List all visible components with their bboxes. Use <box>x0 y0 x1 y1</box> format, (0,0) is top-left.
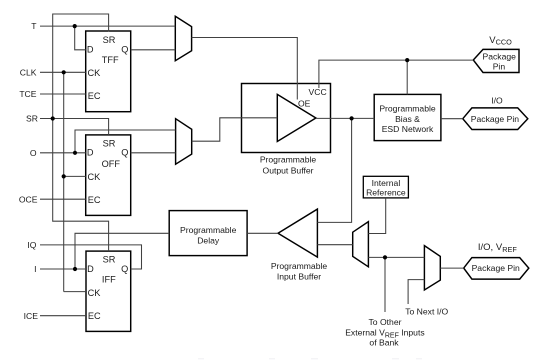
svg-text:TFF: TFF <box>102 55 119 65</box>
svg-text:D: D <box>87 148 94 158</box>
output buffer triangle <box>277 94 316 141</box>
wire T input line <box>40 25 175 27</box>
junction CLK-OFF <box>62 174 66 178</box>
svg-text:D: D <box>87 45 94 55</box>
svg-text:Q: Q <box>121 264 128 274</box>
junction vref <box>383 255 387 259</box>
svg-text:SR: SR <box>103 255 116 265</box>
svg-text:CK: CK <box>88 68 102 78</box>
faint cropped caption remnants <box>198 358 422 360</box>
wire OFF Q to mux <box>131 152 176 154</box>
wire TFF Q to mux <box>131 49 176 51</box>
wire output node down to input buffer <box>317 118 351 222</box>
svg-text:Bias &: Bias & <box>395 114 420 124</box>
svg-text:SR: SR <box>103 139 116 149</box>
junction output <box>350 116 354 120</box>
wire O input line <box>40 152 86 154</box>
svg-text:CK: CK <box>88 172 102 182</box>
wire TFF mux output to OE <box>192 38 298 100</box>
svg-text:OE: OE <box>298 98 311 108</box>
junction I <box>73 267 77 271</box>
svg-text:To Other: To Other <box>369 317 402 327</box>
svg-text:Delay: Delay <box>197 236 220 246</box>
svg-text:VCC: VCC <box>309 87 327 97</box>
svg-text:of Bank: of Bank <box>369 338 399 348</box>
svg-text:I/O: I/O <box>491 95 503 105</box>
wire T to D of TFF <box>75 26 86 50</box>
wire OFF mux output to output buffer <box>192 118 278 141</box>
svg-text:Programmable: Programmable <box>260 155 317 165</box>
input buffer triangle <box>278 209 317 257</box>
svg-text:IQ: IQ <box>27 240 36 250</box>
wire VCC line to VCCO pin <box>319 60 473 88</box>
wire I input line <box>40 268 86 270</box>
svg-text:Internal: Internal <box>372 178 401 188</box>
svg-text:CK: CK <box>88 288 102 298</box>
svg-text:Programmable: Programmable <box>271 261 328 271</box>
svg-text:VCCO: VCCO <box>489 35 512 47</box>
junction CLK <box>62 70 66 74</box>
wire vref to bank <box>384 257 386 312</box>
svg-text:OCE: OCE <box>19 194 38 204</box>
svg-text:CLK: CLK <box>20 67 37 77</box>
junction SR <box>51 116 55 120</box>
svg-text:EC: EC <box>88 195 101 205</box>
wire SR input line to OFF SR <box>40 119 109 135</box>
mux TFF output select <box>175 16 191 60</box>
svg-text:Package: Package <box>482 51 516 61</box>
programmable delay box <box>169 211 247 256</box>
svg-text:EC: EC <box>88 311 101 321</box>
svg-text:Programmable: Programmable <box>379 104 436 114</box>
svg-text:Programmable: Programmable <box>180 225 237 235</box>
mux vref select <box>353 222 369 267</box>
wire SR to IFF SR <box>53 119 109 252</box>
wire CLK to IFF CK <box>64 291 86 293</box>
wire next mux to vref pin <box>440 267 463 269</box>
bias & ESD network box <box>374 94 441 140</box>
svg-text:SR: SR <box>26 114 38 124</box>
wire O bypass to mux <box>75 130 176 153</box>
svg-text:EC: EC <box>88 91 101 101</box>
wire VCC drop to bias network <box>406 60 408 94</box>
wire OCE input line <box>40 198 86 200</box>
wire to next IO <box>408 280 424 304</box>
wire input buffer to vref mux <box>317 244 352 246</box>
internal reference box <box>363 176 408 198</box>
wire SR to TFF SR input (up and over) <box>53 14 109 119</box>
wire bias network to I/O pin <box>441 118 463 120</box>
package pin I/O VREF <box>464 258 529 280</box>
wire TCE input line <box>40 93 86 95</box>
wire output buffer to bias network <box>316 117 374 119</box>
svg-text:ESD Network: ESD Network <box>382 124 434 134</box>
wire internal reference to vref mux <box>368 198 385 234</box>
svg-text:Pin: Pin <box>493 61 506 71</box>
svg-text:IFF: IFF <box>102 275 116 285</box>
svg-text:Output Buffer: Output Buffer <box>263 166 314 176</box>
wire CLK vertical <box>63 72 65 291</box>
svg-text:Input Buffer: Input Buffer <box>277 271 321 281</box>
pin texts IFF <box>87 255 128 321</box>
wire CLK input line <box>40 71 86 73</box>
package pin VCCO <box>473 49 519 72</box>
svg-text:Reference: Reference <box>366 188 406 198</box>
package pin I/O <box>463 108 528 130</box>
wire delay to input buffer <box>247 232 278 234</box>
svg-text:T: T <box>31 21 37 31</box>
flip-flop IFF <box>86 251 131 331</box>
svg-text:TCE: TCE <box>19 89 36 99</box>
wire I bypass to delay <box>75 233 169 269</box>
svg-text:SR: SR <box>103 35 116 45</box>
svg-text:D: D <box>87 264 94 274</box>
junction T <box>73 24 77 28</box>
flip-flop OFF <box>86 135 131 216</box>
flip-flop TFF <box>86 31 131 112</box>
mux OFF output select <box>176 119 192 165</box>
svg-text:I/O, VREF: I/O, VREF <box>478 242 517 254</box>
svg-text:O: O <box>30 148 37 158</box>
pin texts TFF <box>87 35 128 101</box>
svg-text:Q: Q <box>121 45 128 55</box>
wire CLK to OFF CK <box>64 175 86 177</box>
svg-text:Q: Q <box>121 148 128 158</box>
svg-text:Package Pin: Package Pin <box>472 263 520 273</box>
svg-text:ICE: ICE <box>24 311 39 321</box>
svg-text:To Next I/O: To Next I/O <box>405 307 448 317</box>
output buffer box <box>242 84 331 153</box>
wire ICE input line <box>40 315 86 317</box>
junction VCC <box>405 58 409 62</box>
pin texts OFF <box>87 139 128 206</box>
svg-text:Package Pin: Package Pin <box>471 114 519 124</box>
wire external vref line <box>368 256 424 258</box>
wire IQ output line <box>40 245 142 269</box>
junction O <box>73 151 77 155</box>
svg-text:I: I <box>34 264 36 274</box>
svg-text:OFF: OFF <box>102 159 121 169</box>
mux next IO select <box>424 246 440 290</box>
